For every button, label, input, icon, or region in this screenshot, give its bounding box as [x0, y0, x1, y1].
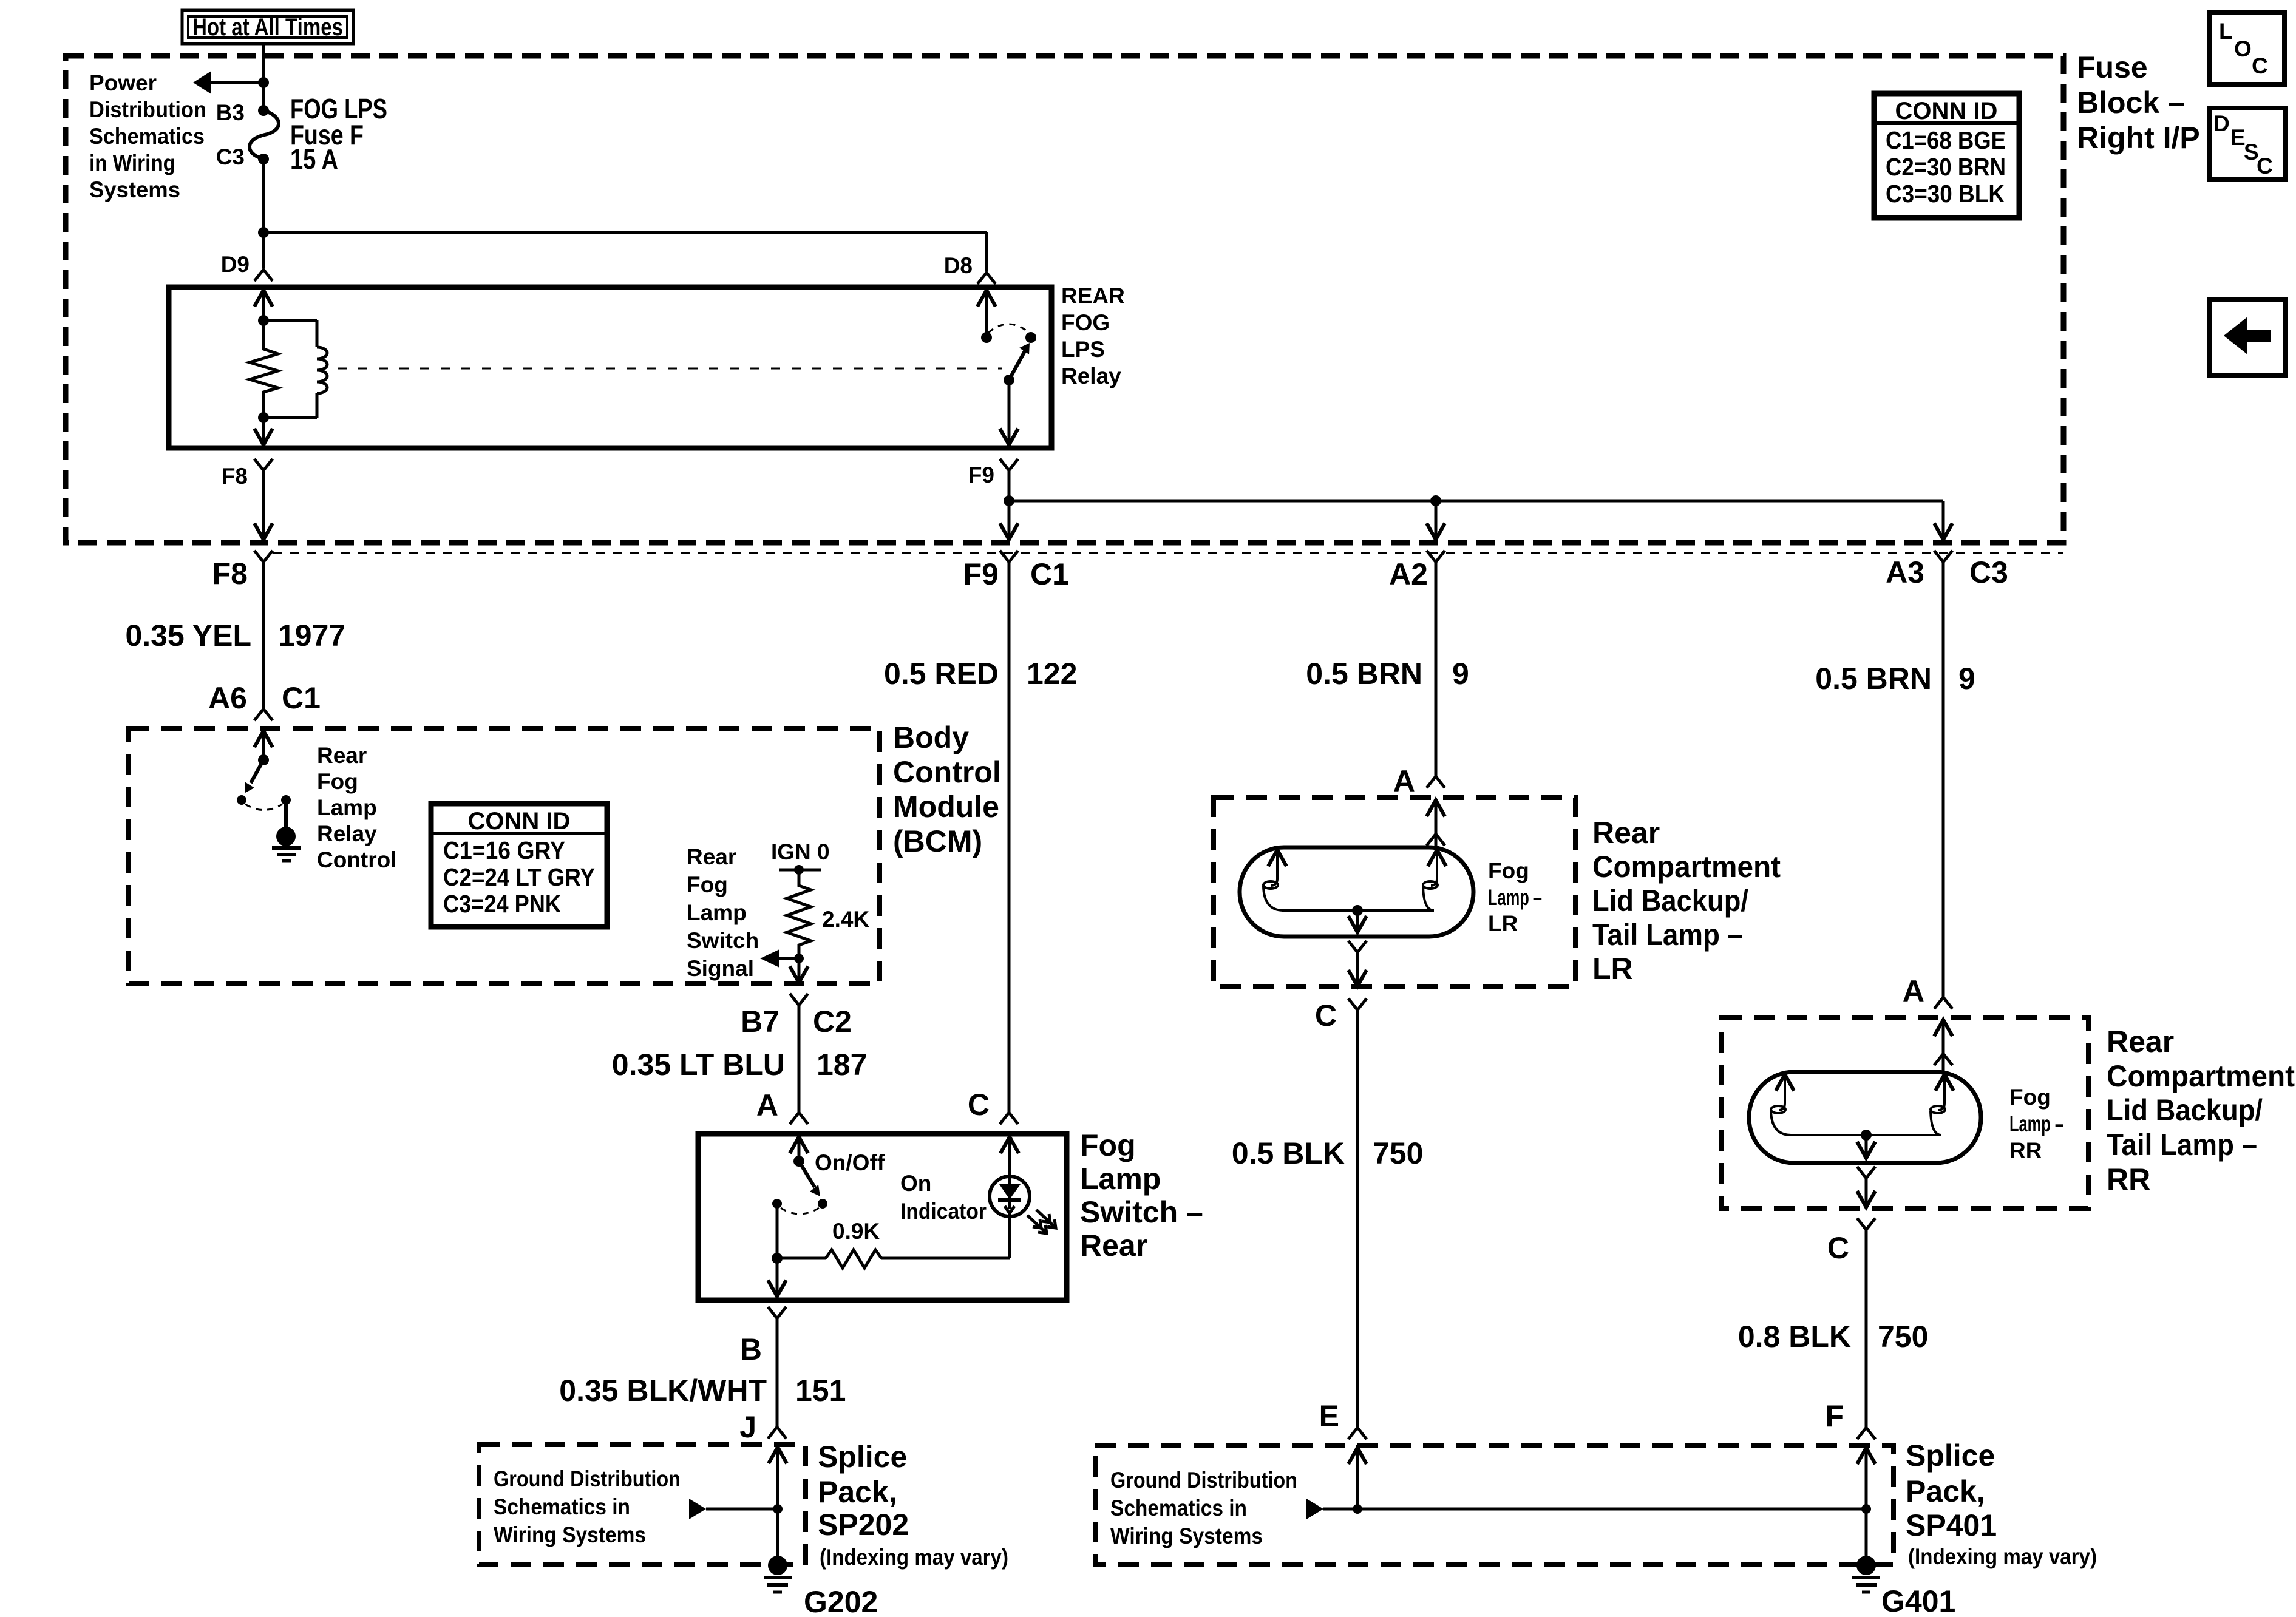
node IGN 0 junction: [794, 865, 804, 875]
svg-text:Wiring Systems: Wiring Systems: [494, 1522, 646, 1547]
wire 0.35 BLK/WHT 151: [776, 1318, 779, 1426]
relay control switch blade: [245, 760, 263, 793]
svg-text:Lid Backup/: Lid Backup/: [1592, 884, 1748, 918]
svg-text:Control: Control: [893, 755, 1001, 789]
LR lamp dashed outline (Rear Compartment Lid Backup/Tail Lamp - LR): [1214, 798, 1575, 986]
svg-text:0.35 LT BLU: 0.35 LT BLU: [612, 1048, 785, 1082]
svg-text:On: On: [900, 1171, 931, 1196]
fog lamp RR bulb: [1749, 1072, 1981, 1163]
svg-text:Rear: Rear: [317, 743, 367, 768]
RR lamp C pin wire: [1857, 1167, 1875, 1207]
svg-text:Ground Distribution: Ground Distribution: [494, 1466, 681, 1491]
svg-text:Signal: Signal: [687, 956, 754, 981]
relay control driver input wire: [254, 731, 273, 765]
internal ground stem: [284, 800, 288, 827]
svg-text:LR: LR: [1488, 911, 1518, 936]
wire A3 drop: [1934, 501, 1952, 540]
switch A pin wire: [790, 1137, 808, 1167]
wire from Hot at All Times to fuse: [262, 45, 265, 110]
wire arrow from ground distribution (left): [689, 1499, 778, 1519]
switch fixed contact: [818, 1199, 827, 1209]
svg-text:Control: Control: [317, 847, 397, 872]
wire F into ground box: [1857, 1448, 1875, 1565]
CONN ID table (fuse block): [1874, 93, 2019, 218]
connector A2: [1427, 551, 1445, 562]
svg-text:Switch: Switch: [687, 928, 759, 953]
svg-text:(Indexing may vary): (Indexing may vary): [1908, 1544, 2097, 1569]
relay control switch closed contact: [281, 795, 291, 805]
svg-text:Fog: Fog: [687, 872, 728, 897]
ground distribution dashed box (right, G401): [1095, 1445, 1894, 1564]
node A2 branch junction: [1430, 495, 1441, 506]
RR lamp dashed outline (Rear Compartment Lid Backup/Tail Lamp - RR): [1721, 1017, 2088, 1209]
svg-text:Power: Power: [89, 70, 157, 95]
label Rear Compartment Lid Backup/ Tail Lamp - RR: [2107, 1025, 2295, 1196]
relay coil pin wire (D9 side): [254, 290, 273, 326]
switch B pin wire: [768, 1258, 786, 1297]
pin F9 connector (relay): [1000, 459, 1018, 470]
svg-text:C1: C1: [282, 681, 321, 715]
svg-text:C: C: [1315, 998, 1337, 1032]
svg-text:A2: A2: [1389, 557, 1428, 591]
svg-text:F9: F9: [968, 463, 994, 487]
svg-text:E: E: [1319, 1399, 1339, 1433]
svg-text:CONN ID: CONN ID: [468, 808, 571, 835]
node SP202 splice junction: [773, 1504, 783, 1514]
fog lamp LR bulb: [1240, 847, 1473, 937]
node F9 branch junction: [1004, 495, 1014, 506]
fuse F (FOG LPS Fuse, 15 A): [250, 105, 279, 164]
svg-text:B: B: [740, 1332, 762, 1366]
svg-text:LR: LR: [1592, 952, 1633, 986]
svg-text:E: E: [2230, 125, 2246, 150]
svg-text:Rear: Rear: [687, 844, 736, 869]
svg-text:C3: C3: [216, 144, 245, 169]
label Body Control Module (BCM): [893, 720, 1001, 858]
svg-text:C1: C1: [1030, 557, 1069, 591]
label Rear Compartment Lid Backup/ Tail Lamp - LR: [1592, 816, 1781, 986]
fog lamp switch box (Fog Lamp Switch - Rear): [698, 1134, 1067, 1300]
svg-text:G202: G202: [804, 1585, 878, 1617]
wire E into ground box: [1348, 1448, 1367, 1464]
svg-text:Rear: Rear: [1592, 816, 1660, 850]
svg-text:C3=24 PNK: C3=24 PNK: [443, 890, 561, 918]
label FOG LPS Fuse F 15 A: [290, 93, 387, 175]
svg-text:L: L: [2219, 19, 2233, 44]
svg-text:CONN ID: CONN ID: [1895, 98, 1998, 124]
svg-text:F8: F8: [222, 464, 248, 489]
svg-text:A: A: [1393, 764, 1415, 798]
svg-text:A: A: [1903, 974, 1924, 1008]
svg-text:Tail Lamp –: Tail Lamp –: [2107, 1128, 2257, 1162]
node resistor junction: [772, 1253, 783, 1264]
pin F8 connector (relay): [254, 459, 273, 470]
svg-text:D: D: [2213, 111, 2230, 136]
connector F8: [254, 551, 273, 562]
svg-text:Fog: Fog: [317, 769, 358, 794]
wire 0.8 BLK 750: [1865, 1230, 1868, 1427]
label On Indicator: [900, 1171, 987, 1224]
svg-text:Fog: Fog: [1488, 858, 1529, 883]
connector B: [768, 1307, 786, 1318]
svg-text:Lamp: Lamp: [1080, 1162, 1161, 1196]
svg-text:Pack,: Pack,: [1906, 1474, 1985, 1508]
svg-text:0.5 BRN: 0.5 BRN: [1306, 657, 1422, 691]
connector F9 / C1: [1000, 551, 1018, 562]
wire fuse to relay D9: [262, 159, 265, 268]
svg-text:C1=68 BGE: C1=68 BGE: [1886, 126, 2006, 154]
LR lamp A pin wire: [1427, 800, 1445, 847]
svg-text:122: 122: [1027, 657, 1077, 691]
wire F8 to fuse block edge: [254, 470, 273, 540]
svg-text:A: A: [756, 1088, 778, 1122]
svg-text:0.5 BRN: 0.5 BRN: [1815, 662, 1932, 696]
svg-text:O: O: [2234, 36, 2252, 61]
svg-text:Body: Body: [893, 720, 969, 754]
svg-text:C: C: [1827, 1231, 1849, 1265]
svg-text:REAR: REAR: [1061, 283, 1125, 308]
switch C pin wire to LED: [1000, 1137, 1019, 1176]
ground distribution dashed box (left, G202): [479, 1445, 806, 1565]
svg-text:Splice: Splice: [818, 1440, 907, 1474]
svg-text:in Wiring: in Wiring: [89, 151, 175, 175]
wire arrow to Rear Fog Lamp Switch Signal: [760, 949, 799, 968]
relay control switch throw dashed arc: [245, 804, 282, 810]
svg-text:C1=16 GRY: C1=16 GRY: [443, 836, 565, 864]
svg-text:RR: RR: [2107, 1162, 2150, 1196]
svg-text:Distribution: Distribution: [89, 97, 206, 122]
svg-text:187: 187: [817, 1048, 867, 1082]
svg-text:Fog: Fog: [1080, 1128, 1136, 1162]
ground symbol (BCM internal): [272, 848, 301, 861]
svg-text:Relay: Relay: [1061, 364, 1121, 388]
node E splice junction: [1353, 1504, 1362, 1514]
node coil bottom: [258, 412, 269, 423]
internal ground circle: [276, 827, 296, 846]
svg-text:Wiring Systems: Wiring Systems: [1110, 1524, 1263, 1548]
svg-text:Switch –: Switch –: [1080, 1195, 1203, 1229]
svg-text:Fuse: Fuse: [2077, 50, 2148, 84]
svg-text:A6: A6: [208, 681, 247, 715]
svg-text:F: F: [1825, 1399, 1844, 1433]
ground G401: [1852, 1556, 1880, 1592]
relay switch throw dashed arc: [988, 324, 1029, 333]
wire arrow from ground distribution (right): [1306, 1499, 1866, 1519]
svg-text:C2: C2: [813, 1005, 852, 1039]
svg-text:C2=24 LT GRY: C2=24 LT GRY: [443, 863, 595, 891]
node battery feed junction: [258, 77, 269, 88]
label Ground Distribution Schematics in Wiring Systems (left): [494, 1466, 681, 1547]
svg-text:C3: C3: [1969, 555, 2008, 589]
On/Off switch blade: [799, 1161, 820, 1196]
CONN ID table (BCM): [431, 804, 607, 927]
svg-text:2.4K: 2.4K: [822, 907, 869, 932]
node fuse output junction: [258, 227, 269, 238]
svg-text:D9: D9: [221, 252, 250, 277]
svg-text:Relay: Relay: [317, 821, 377, 846]
relay coil: [263, 320, 327, 418]
svg-text:SP401: SP401: [1906, 1508, 1997, 1542]
svg-text:0.35 YEL: 0.35 YEL: [125, 619, 251, 653]
svg-text:On/Off: On/Off: [815, 1150, 885, 1175]
svg-text:C3=30 BLK: C3=30 BLK: [1886, 180, 2005, 208]
svg-text:Schematics: Schematics: [89, 124, 205, 149]
svg-text:C: C: [2257, 154, 2273, 178]
IGN 0 rail: [779, 869, 821, 872]
svg-text:LPS: LPS: [1061, 337, 1105, 362]
relay switch common pin wire (D8 side): [977, 290, 996, 343]
svg-text:Lamp: Lamp: [317, 795, 377, 820]
wire switch to F9 pin: [1000, 380, 1018, 445]
wire branch to D8: [263, 232, 987, 271]
svg-text:Lamp –: Lamp –: [1488, 885, 1542, 910]
On Indicator LED: [990, 1176, 1030, 1258]
label Ground Distribution Schematics in Wiring Systems (right): [1110, 1468, 1297, 1548]
svg-text:J: J: [739, 1410, 756, 1444]
DESC box: [2209, 108, 2286, 180]
relay actuation dashed link: [338, 368, 1002, 370]
svg-text:B3: B3: [216, 100, 245, 125]
svg-text:Tail Lamp –: Tail Lamp –: [1592, 918, 1743, 952]
connector A3 / C3: [1934, 551, 1952, 562]
LOC box: [2209, 13, 2284, 84]
svg-text:750: 750: [1373, 1136, 1423, 1170]
wire pole down: [776, 1204, 779, 1258]
wire coil to F8 pin: [254, 418, 273, 445]
wire 0.5 BRN 9 (A3): [1942, 562, 1945, 997]
resistor 2.4K: [787, 870, 811, 958]
svg-text:Block –: Block –: [2077, 86, 2185, 120]
wire signal to B7 pin: [790, 958, 808, 983]
svg-text:Ground Distribution: Ground Distribution: [1110, 1468, 1297, 1493]
wire 0.35 YEL 1977: [262, 562, 265, 708]
svg-text:SP202: SP202: [818, 1508, 909, 1542]
RR lamp A pin wire: [1934, 1020, 1952, 1072]
svg-text:Rear: Rear: [1080, 1229, 1147, 1263]
svg-text:Right I/P: Right I/P: [2077, 121, 2200, 155]
label Fog Lamp - LR: [1488, 858, 1542, 936]
node SP401 splice junction: [1861, 1504, 1871, 1514]
svg-text:G401: G401: [1881, 1584, 1955, 1617]
svg-text:IGN 0: IGN 0: [771, 839, 830, 864]
switch throw dashed arc: [781, 1208, 819, 1214]
svg-text:Schematics in: Schematics in: [494, 1494, 630, 1519]
svg-text:F8: F8: [212, 557, 248, 591]
label REAR FOG LPS Relay: [1061, 283, 1125, 388]
node switch signal junction: [794, 954, 804, 963]
svg-text:9: 9: [1958, 662, 1975, 696]
svg-text:Fog: Fog: [2009, 1085, 2051, 1110]
label Fog Lamp Switch - Rear: [1080, 1128, 1203, 1263]
svg-text:Rear: Rear: [2107, 1025, 2174, 1059]
wire 0.35 LT BLU 187: [798, 1005, 801, 1113]
svg-text:B7: B7: [741, 1005, 779, 1039]
svg-text:Systems: Systems: [89, 177, 180, 202]
BCM dashed outline (Body Control Module): [129, 728, 880, 984]
wire F9 down: [1008, 470, 1011, 538]
svg-text:Pack,: Pack,: [818, 1475, 897, 1509]
svg-text:1977: 1977: [278, 619, 345, 653]
svg-text:Lid Backup/: Lid Backup/: [2107, 1093, 2263, 1127]
svg-text:C2=30 BRN: C2=30 BRN: [1886, 153, 2006, 181]
switch pole contact: [772, 1199, 782, 1209]
relay resistor: [250, 320, 278, 418]
wire 0.5 BRN 9 (A2): [1435, 562, 1438, 776]
label Rear Fog Lamp Switch Signal: [687, 844, 759, 981]
pin D8 connector: [977, 273, 996, 284]
pin D9 connector: [254, 269, 273, 281]
svg-text:Hot at All Times: Hot at All Times: [192, 14, 343, 41]
relay switch blade: [1004, 343, 1030, 385]
connector A6 / C1: [254, 709, 273, 720]
svg-text:Lamp –: Lamp –: [2009, 1111, 2063, 1136]
wire J to G202: [769, 1445, 787, 1565]
svg-text:D8: D8: [944, 253, 973, 278]
label Rear Fog Lamp Relay Control: [317, 743, 397, 872]
label Splice Pack SP401: [1906, 1439, 1997, 1542]
wire F9 bus to A2 and A3: [1009, 500, 1943, 503]
relay control switch open contact: [237, 795, 246, 805]
relay switch fixed contact: [1025, 332, 1036, 343]
label Splice Pack SP202: [818, 1440, 909, 1542]
svg-text:9: 9: [1452, 657, 1469, 691]
Hot at All Times box: [182, 10, 353, 44]
svg-text:Compartment: Compartment: [1592, 850, 1781, 884]
svg-text:C: C: [2252, 53, 2268, 78]
svg-text:Compartment: Compartment: [2107, 1059, 2295, 1093]
svg-text:15 A: 15 A: [290, 143, 338, 175]
svg-text:750: 750: [1878, 1320, 1928, 1354]
svg-text:Indicator: Indicator: [900, 1199, 987, 1224]
svg-text:Splice: Splice: [1906, 1439, 1995, 1473]
label Fog Lamp - RR: [2009, 1085, 2063, 1163]
svg-text:(Indexing may vary): (Indexing may vary): [820, 1545, 1008, 1570]
svg-text:151: 151: [795, 1374, 846, 1408]
ground G202: [764, 1556, 792, 1592]
fuse block dashed outline (Fuse Block - Right I/P): [66, 56, 2063, 543]
label Power Distribution Schematics in Wiring Systems: [89, 70, 206, 202]
nav arrow box: [2209, 299, 2286, 376]
svg-text:F9: F9: [963, 557, 999, 591]
svg-text:Module: Module: [893, 790, 999, 824]
relay box REAR FOG LPS Relay: [169, 287, 1051, 448]
svg-text:A3: A3: [1886, 555, 1924, 589]
svg-text:RR: RR: [2009, 1138, 2042, 1163]
svg-text:0.8 BLK: 0.8 BLK: [1738, 1320, 1851, 1354]
resistor 0.9K: [777, 1250, 1010, 1268]
wire 0.5 BLK 750: [1356, 1010, 1359, 1427]
svg-text:FOG: FOG: [1061, 310, 1110, 335]
wire 0.5 RED 122: [1008, 562, 1011, 1113]
connector B7 / C2: [790, 994, 808, 1005]
connector face dashed line: [273, 552, 2063, 554]
svg-text:(BCM): (BCM): [893, 824, 982, 858]
svg-text:0.5 BLK: 0.5 BLK: [1232, 1136, 1345, 1170]
LR lamp C pin wire: [1348, 941, 1367, 986]
svg-text:0.9K: 0.9K: [832, 1219, 880, 1244]
LED light rays: [1027, 1210, 1056, 1233]
wire A2 drop: [1427, 501, 1445, 540]
svg-text:0.5 RED: 0.5 RED: [884, 657, 999, 691]
svg-text:C: C: [968, 1088, 990, 1122]
label Fuse Block - Right I/P: [2077, 50, 2200, 155]
svg-text:Schematics in: Schematics in: [1110, 1496, 1247, 1520]
svg-text:Lamp: Lamp: [687, 900, 747, 925]
svg-text:0.35 BLK/WHT: 0.35 BLK/WHT: [559, 1374, 767, 1408]
wire arrow to Power Distribution reference: [193, 71, 263, 94]
